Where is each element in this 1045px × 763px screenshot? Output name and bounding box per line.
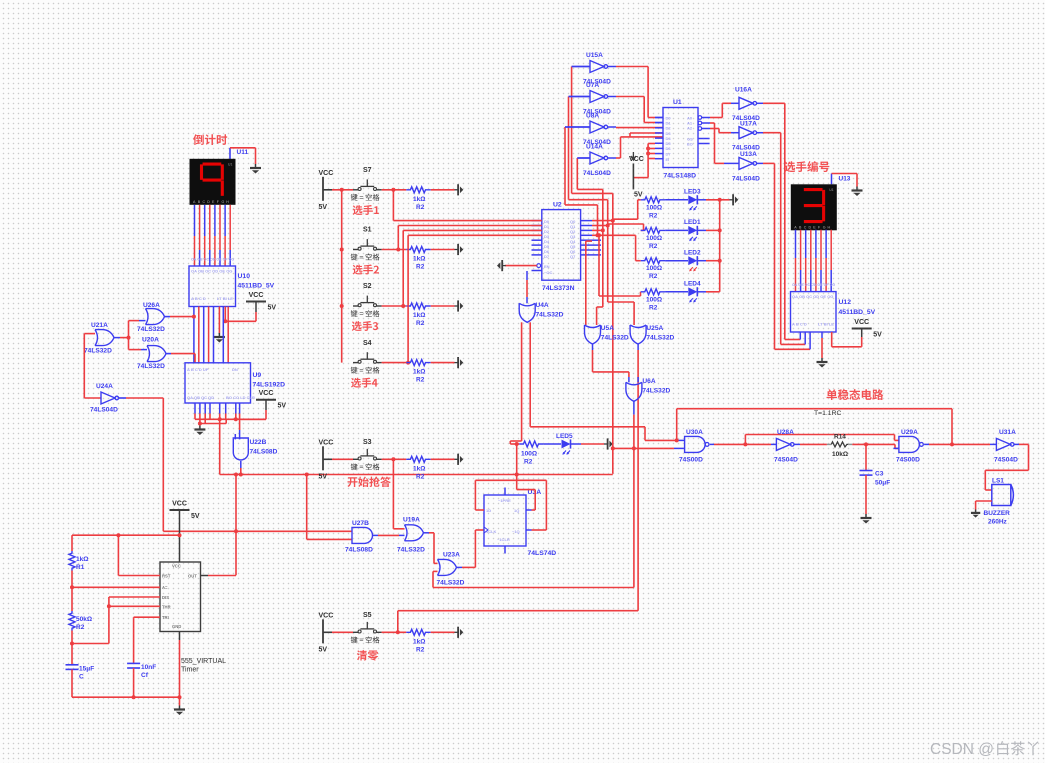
IC U12 4511BD_5V xyxy=(791,283,876,332)
svg-text:5V: 5V xyxy=(191,513,200,520)
wire long rail from U9 area to monostable riser xyxy=(220,473,613,477)
svg-text:C: C xyxy=(203,200,206,204)
svg-text:H: H xyxy=(226,200,229,204)
svg-text:U13: U13 xyxy=(839,176,851,183)
red label 清零 (clear) xyxy=(357,650,379,660)
svg-text:S7: S7 xyxy=(363,167,372,174)
svg-text:74S00D: 74S00D xyxy=(679,457,703,464)
wire LED cathode common vertical xyxy=(706,200,722,292)
svg-text:U19A: U19A xyxy=(403,517,420,524)
svg-text:D7: D7 xyxy=(666,151,672,156)
VCC 5V for 555 xyxy=(170,501,200,563)
wire S3 to resistor xyxy=(382,457,407,461)
svg-text:R2: R2 xyxy=(76,624,85,631)
svg-text:A=: A= xyxy=(162,585,168,590)
svg-text:5V: 5V xyxy=(319,473,328,480)
wire 555 ground pin xyxy=(178,632,182,706)
wire bundle U10 to U9 xyxy=(194,307,228,363)
svg-text:CSDN @: CSDN @ xyxy=(930,741,994,758)
wire U26A output to U10 pin xyxy=(165,315,196,319)
svg-text:R2: R2 xyxy=(649,212,658,219)
ground for display U13 xyxy=(852,187,863,197)
svg-text:R2: R2 xyxy=(416,646,425,653)
IC U10 4511BD_5V xyxy=(189,258,275,307)
svg-text:OUT: OUT xyxy=(188,574,197,579)
svg-text:50μF: 50μF xyxy=(875,480,890,487)
digital ground at U2 enable xyxy=(497,260,537,271)
svg-text:VCC: VCC xyxy=(319,612,334,619)
wire U16A output down to U12 xyxy=(757,103,801,339)
digital ground S3 xyxy=(455,454,464,465)
red label 倒计时 (countdown) xyxy=(193,134,227,145)
wire U31A output to buzzer xyxy=(985,444,1028,490)
svg-text:1Q: 1Q xyxy=(514,508,519,513)
wire R1 to R2 junction to 555 A pin xyxy=(70,571,160,612)
wire U22B output to rail xyxy=(239,461,243,477)
wire display2 top pin xyxy=(832,174,858,187)
switch S1 contestant2 xyxy=(351,227,382,261)
svg-text:R2: R2 xyxy=(649,243,658,250)
svg-text:VCC: VCC xyxy=(854,319,869,326)
led LED4 xyxy=(665,281,706,303)
svg-text:EN: EN xyxy=(544,264,550,269)
red label 单稳态电路 (monostable) xyxy=(827,389,884,400)
digital ground row3 xyxy=(455,300,464,311)
inverter U16A 74LS04D xyxy=(732,87,760,123)
resistor R2 50k xyxy=(69,611,92,631)
svg-text:100Ω: 100Ω xyxy=(646,265,662,272)
label U11 xyxy=(237,149,249,156)
svg-text:U1: U1 xyxy=(673,99,682,106)
svg-text:U17A: U17A xyxy=(740,121,757,128)
svg-text:S4: S4 xyxy=(363,340,372,347)
wire U3A preset pin xyxy=(504,488,506,496)
svg-text:U1: U1 xyxy=(829,188,833,192)
wire rail riser to U30A input2 xyxy=(613,447,685,449)
wire 555 reset pin xyxy=(118,535,160,575)
led LED5 xyxy=(544,433,604,455)
inverter U7A 74LS04D xyxy=(569,82,612,116)
ground under 555 xyxy=(174,706,185,716)
wire U2 Q4 to U5A input1 xyxy=(586,241,592,325)
svg-text:74LS32D: 74LS32D xyxy=(437,580,465,587)
wire VCC to U12 pin xyxy=(832,332,862,347)
resistor R2 1k row1 xyxy=(406,187,430,211)
wire row1 to digital ground xyxy=(431,189,455,191)
svg-text:U6A: U6A xyxy=(642,378,655,385)
svg-text:GND: GND xyxy=(172,624,181,629)
svg-text:U20A: U20A xyxy=(142,337,159,344)
resistor R14 10k xyxy=(827,434,852,459)
svg-text:U23A: U23A xyxy=(443,552,460,559)
svg-text:U14A: U14A xyxy=(586,144,603,151)
inverter U15A 74LS04D xyxy=(572,52,611,86)
svg-text:LT BI LE: LT BI LE xyxy=(217,296,233,301)
wire U15A output to U1 pin1 xyxy=(607,67,663,118)
red label 选手2 xyxy=(353,265,379,275)
svg-text:U1: U1 xyxy=(228,162,232,166)
inverter U24A 74LS04D xyxy=(90,383,119,414)
resistor R2 1k row4 xyxy=(406,360,430,384)
wire Cf to bottom rail xyxy=(133,668,135,697)
switch S7 contestant1 xyxy=(351,167,382,201)
svg-text:~1PRE: ~1PRE xyxy=(498,498,511,503)
svg-text:LED4: LED4 xyxy=(684,281,701,288)
buzzer LS1 260Hz xyxy=(984,478,1014,526)
red label 选手3 xyxy=(352,321,378,331)
svg-text:74LS32D: 74LS32D xyxy=(84,348,112,355)
svg-text:~1CLR: ~1CLR xyxy=(497,537,510,542)
svg-text:S1: S1 xyxy=(363,227,372,234)
svg-text:BUZZER: BUZZER xyxy=(984,510,1011,517)
svg-text:1kΩ: 1kΩ xyxy=(76,556,88,563)
svg-text:T=1.1RC: T=1.1RC xyxy=(814,410,841,417)
resistor R2 100ohm for LED3 xyxy=(641,197,665,220)
svg-text:Q7: Q7 xyxy=(570,254,576,259)
svg-text:U27B: U27B xyxy=(352,520,369,527)
digital ground S5 xyxy=(455,627,464,638)
svg-text:74LS32D: 74LS32D xyxy=(646,335,674,342)
svg-text:1kΩ: 1kΩ xyxy=(413,465,425,472)
svg-text:LED2: LED2 xyxy=(684,250,701,257)
or-gate U23A 74LS32D xyxy=(437,552,465,587)
svg-text:74LS148D: 74LS148D xyxy=(664,173,697,180)
nand-gate U29A 74S00D xyxy=(896,429,923,464)
svg-text:A B C D: A B C D xyxy=(191,296,206,301)
svg-text:R2: R2 xyxy=(649,273,658,280)
svg-text:1kΩ: 1kΩ xyxy=(413,369,425,376)
svg-text:VCC: VCC xyxy=(172,564,181,569)
wire U24A output down-left riser xyxy=(118,398,164,531)
wire S5 row to digital ground xyxy=(431,631,455,633)
wire feedback riser to U30A input1 xyxy=(675,409,685,443)
svg-text:74LS08D: 74LS08D xyxy=(250,449,278,456)
svg-text:74S04D: 74S04D xyxy=(994,457,1018,464)
inverter U13A 74LS04D xyxy=(732,151,760,183)
svg-text:74LS74D: 74LS74D xyxy=(528,550,557,557)
svg-text:R2: R2 xyxy=(524,459,533,466)
svg-text:100Ω: 100Ω xyxy=(521,451,537,458)
svg-text:74S04D: 74S04D xyxy=(774,457,798,464)
svg-text:VCC: VCC xyxy=(319,439,334,446)
svg-text:U4A: U4A xyxy=(536,302,549,309)
wire bundle display1 to U10 xyxy=(195,205,231,266)
svg-text:LS1: LS1 xyxy=(992,478,1004,485)
wire VCC U9 to bottom rail xyxy=(241,410,266,419)
svg-text:U25A: U25A xyxy=(646,325,663,332)
svg-text:LED5: LED5 xyxy=(556,433,573,440)
or-gate U21A 74LS32D xyxy=(84,322,114,355)
svg-text:555_VIRTUAL: 555_VIRTUAL xyxy=(181,658,226,665)
svg-text:5V: 5V xyxy=(634,192,643,199)
svg-text:5V: 5V xyxy=(319,646,328,653)
svg-text:~1Q: ~1Q xyxy=(512,529,520,534)
svg-text:VCC: VCC xyxy=(172,501,187,508)
svg-text:TRI: TRI xyxy=(162,615,169,620)
svg-text:C: C xyxy=(804,225,807,229)
svg-text:LED3: LED3 xyxy=(684,189,701,196)
capacitor C3 50uF xyxy=(860,444,891,514)
svg-text:S3: S3 xyxy=(363,439,372,446)
svg-text:Cf: Cf xyxy=(141,672,149,679)
wire U7A output to U1 pin2 xyxy=(607,97,663,123)
wire U9 bottom pin rails xyxy=(195,403,266,426)
svg-text:THR: THR xyxy=(162,604,171,609)
ground for display U11 xyxy=(250,164,261,174)
VCC 5V for S5 xyxy=(319,612,334,653)
wire S5 to resistor and riser xyxy=(382,611,638,635)
svg-text:D: D xyxy=(207,200,210,204)
ground for buzzer xyxy=(971,510,980,518)
wire U24A node to U27B input1 xyxy=(163,530,352,532)
wire S1 to resistor and U2 row2 xyxy=(382,226,542,252)
switch S2 contestant3 xyxy=(351,283,382,317)
wire row3 to digital ground xyxy=(431,305,455,307)
svg-text:H: H xyxy=(828,225,831,229)
switch S4 contestant4 xyxy=(351,340,382,374)
wire U6A output to U23A input2 xyxy=(433,571,438,587)
svg-text:U30A: U30A xyxy=(686,429,703,436)
wire U19A output to U23A xyxy=(424,533,438,564)
svg-text:74LS08D: 74LS08D xyxy=(345,547,373,554)
svg-text:R2: R2 xyxy=(649,304,658,311)
svg-text:74S00D: 74S00D xyxy=(896,457,920,464)
svg-text:50kΩ: 50kΩ xyxy=(76,616,92,623)
wire U21A output node xyxy=(114,321,147,350)
svg-text:74LS32D: 74LS32D xyxy=(642,388,670,395)
led LED3 xyxy=(665,189,706,211)
svg-text:DIS: DIS xyxy=(162,595,169,600)
wire S3 row to digital ground xyxy=(431,458,455,460)
resistor R2 1k for S3 xyxy=(406,456,430,480)
wire U9 to U22B inputs xyxy=(235,403,239,439)
wire U6A output down to U23A xyxy=(433,401,636,587)
svg-text:U31A: U31A xyxy=(999,429,1016,436)
wire node into U21A and U24A inputs xyxy=(84,334,101,398)
svg-text:~OC: ~OC xyxy=(544,270,552,275)
wire C to bottom rail xyxy=(72,669,180,699)
svg-text:U16A: U16A xyxy=(735,87,752,94)
wire 555 OUT riser xyxy=(234,473,238,576)
VCC for U12 xyxy=(852,319,882,339)
svg-text:C: C xyxy=(79,674,84,681)
wire U2 Q0 riser to U15A and LED3 and rail xyxy=(572,67,641,474)
wire U29A output to U31A xyxy=(924,442,996,446)
wire U27B output to U19A xyxy=(373,534,405,536)
IC U1 74LS148D xyxy=(663,99,698,180)
svg-text:U15A: U15A xyxy=(586,52,603,59)
svg-text:R2: R2 xyxy=(416,473,425,480)
svg-text:5V: 5V xyxy=(319,204,328,211)
VCC for U10 xyxy=(246,292,276,312)
digital ground row2 xyxy=(455,244,464,255)
resistor R1 1k xyxy=(69,535,88,571)
svg-text:74LS04D: 74LS04D xyxy=(90,407,118,414)
svg-text:R2: R2 xyxy=(416,320,425,327)
svg-text:U7A: U7A xyxy=(586,82,599,89)
wire U2 pin to U4A input xyxy=(526,271,528,303)
label U13 xyxy=(839,176,851,183)
IC U2 74LS373N xyxy=(542,202,581,293)
wire U9 rail down to long rail xyxy=(219,419,221,474)
wire U1 low pins tie to VCC xyxy=(633,144,655,178)
ground under U10 xyxy=(214,307,225,343)
svg-text:C3: C3 xyxy=(875,471,884,478)
svg-text:OA OB OC OD OE OG: OA OB OC OD OE OG xyxy=(792,294,833,299)
wire U14A output to U1 pins4-5 xyxy=(607,133,663,158)
svg-text:1D: 1D xyxy=(486,508,491,513)
svg-text:4511BD_5V: 4511BD_5V xyxy=(839,309,876,316)
svg-text:R1: R1 xyxy=(76,564,85,571)
svg-text:EO: EO xyxy=(687,142,693,147)
7-segment display U11 showing 9 xyxy=(190,159,236,205)
or-gate U5A 74LS32D (vertical) xyxy=(585,325,629,344)
svg-text:R2: R2 xyxy=(416,264,425,271)
svg-text:74LS32D: 74LS32D xyxy=(397,547,425,554)
digital ground row4 xyxy=(455,357,464,368)
svg-text:5V: 5V xyxy=(268,305,277,312)
wire display1 top pin xyxy=(230,148,256,164)
svg-text:U9: U9 xyxy=(253,372,262,379)
red label 选手4 xyxy=(351,378,378,388)
ground under C3 xyxy=(861,514,872,524)
nand-gate U30A 74S00D xyxy=(679,429,709,464)
resistor R2 1k row3 xyxy=(406,303,430,327)
svg-text:VCC: VCC xyxy=(249,292,264,299)
svg-text:VCC: VCC xyxy=(319,170,334,177)
svg-text:100Ω: 100Ω xyxy=(646,235,662,242)
svg-text:OA OB OC OD OE OG: OA OB OC OD OE OG xyxy=(191,269,232,274)
and-gate U27B 74LS08D xyxy=(345,520,373,554)
red label 选手1 xyxy=(353,205,379,215)
wire U13A output down to U12 xyxy=(757,163,811,349)
digital ground after LED5 xyxy=(604,438,613,449)
resistor R2 100ohm for LED1 xyxy=(641,227,665,250)
wire buzzer to ground xyxy=(976,501,992,510)
wire S4 to resistor and U2 row4 xyxy=(382,235,542,364)
wire R14 to U29A input2 with C3 tap xyxy=(852,442,899,448)
svg-text:OA OB OC OD OE OF OG: OA OB OC OD OE OF OG xyxy=(191,258,234,262)
svg-text:G: G xyxy=(823,225,826,229)
svg-text:A B C D UP: A B C D UP xyxy=(187,367,209,372)
switch S3 start xyxy=(332,439,382,470)
wire U1 out3 to U17A xyxy=(710,129,739,133)
wire top rail 555 xyxy=(72,533,180,537)
svg-text:OA OB OC OD OE OF OG: OA OB OC OD OE OF OG xyxy=(792,283,835,287)
wire S2 to resistor and U2 row3 xyxy=(382,230,542,308)
or-gate U20A 74LS32D xyxy=(137,337,166,371)
resistor R2 1k row2 xyxy=(406,247,430,271)
svg-text:S2: S2 xyxy=(363,283,372,290)
digital ground for LEDs xyxy=(730,194,739,205)
wire monostable feedback top xyxy=(677,409,952,445)
capacitor C 15uF xyxy=(66,665,95,681)
wire U25A output to U6A input2 with S5 riser xyxy=(637,344,639,611)
svg-text:U22B: U22B xyxy=(250,439,267,446)
wire rail branch to U27B input2 xyxy=(307,475,352,540)
or-gate U25A 74LS32D (vertical) xyxy=(630,325,674,344)
wire row4 to digital ground xyxy=(431,362,455,364)
svg-text:U29A: U29A xyxy=(901,429,918,436)
svg-text:U21A: U21A xyxy=(91,322,108,329)
VCC 5V for S3 xyxy=(319,439,334,480)
svg-text:15μF: 15μF xyxy=(79,666,94,673)
wire U12 to ground xyxy=(821,332,823,358)
wire U2 Q2 riser to U8A / U5A / LED4 xyxy=(577,158,640,325)
svg-text:U11: U11 xyxy=(237,149,249,156)
red label 开始抢答 (start) xyxy=(347,477,390,488)
svg-text:D: D xyxy=(809,225,812,229)
wire S3 to U19A input1 xyxy=(393,459,404,529)
wire 555 OUT pin xyxy=(201,575,237,577)
svg-text:5V: 5V xyxy=(278,403,287,410)
wire U3A clear pin xyxy=(504,546,506,554)
wire U2 Q1 riser to U7A / U25A / LED1 xyxy=(569,97,644,326)
svg-text:BO CO LD CLR: BO CO LD CLR xyxy=(226,395,255,400)
svg-text:5V: 5V xyxy=(873,332,882,339)
wire U5A output to U6A input1 xyxy=(593,344,629,382)
svg-text:R2: R2 xyxy=(416,204,425,211)
svg-text:D7: D7 xyxy=(544,254,550,259)
wire U1 out2 to U13A xyxy=(710,123,739,163)
svg-text:10kΩ: 10kΩ xyxy=(832,451,848,458)
led LED1 xyxy=(665,219,706,241)
svg-text:U10: U10 xyxy=(238,273,251,280)
svg-text:R14: R14 xyxy=(834,434,846,441)
wire U2 Q3 riser to U14A / LED2 xyxy=(565,127,641,261)
label T=1.1RC xyxy=(814,410,841,417)
wire U4A output to LED5 and monostable xyxy=(510,322,676,444)
svg-text:U13A: U13A xyxy=(740,151,757,158)
IC U9 74LS192D xyxy=(185,363,285,403)
wire U17A output down to U12 xyxy=(757,133,806,345)
svg-text:74LS04D: 74LS04D xyxy=(583,170,611,177)
svg-text:1kΩ: 1kΩ xyxy=(413,312,425,319)
wire VCC to U10 pin xyxy=(223,307,256,324)
U1 pin stubs xyxy=(655,116,710,159)
resistor R2 1k for S5 xyxy=(406,629,430,653)
IC U3A 74LS74D flip-flop xyxy=(484,489,556,557)
svg-text:A B C D: A B C D xyxy=(792,322,807,327)
svg-text:74LS32D: 74LS32D xyxy=(137,326,165,333)
wire U20A output to U9 pin xyxy=(166,354,195,363)
svg-text:1kΩ: 1kΩ xyxy=(413,638,425,645)
or-gate U6A 74LS32D (vertical) xyxy=(626,378,671,401)
7-segment display U13 showing 3 xyxy=(791,184,837,230)
wire U23A output to U3A clock xyxy=(457,530,485,567)
wire U28A output to R14 xyxy=(794,443,827,445)
svg-text:R2: R2 xyxy=(416,377,425,384)
svg-text:DN: DN xyxy=(232,367,238,372)
or-gate U4A 74LS32D (vertical) xyxy=(519,302,563,322)
led LED2 xyxy=(665,250,706,272)
svg-text:LED1: LED1 xyxy=(684,219,701,226)
resistor R2 100ohm for LED4 xyxy=(641,289,665,312)
wire row2 to digital ground xyxy=(431,249,455,251)
wire R2 bottom to capacitor C xyxy=(71,631,73,665)
wire VCC rail for contestant switches xyxy=(332,188,353,363)
svg-text:VCC: VCC xyxy=(259,390,274,397)
svg-text:4511BD_5V: 4511BD_5V xyxy=(238,283,275,290)
svg-text:1kΩ: 1kΩ xyxy=(413,196,425,203)
wire 555 TRI pin to Cf xyxy=(134,617,160,663)
svg-text:100Ω: 100Ω xyxy=(646,296,662,303)
red label 选手编号 (contestant number) xyxy=(784,161,829,172)
ground under U12 xyxy=(817,358,828,368)
svg-text:74LS04D: 74LS04D xyxy=(732,176,760,183)
svg-text:Timer: Timer xyxy=(181,667,199,674)
svg-text:U24A: U24A xyxy=(96,383,113,390)
